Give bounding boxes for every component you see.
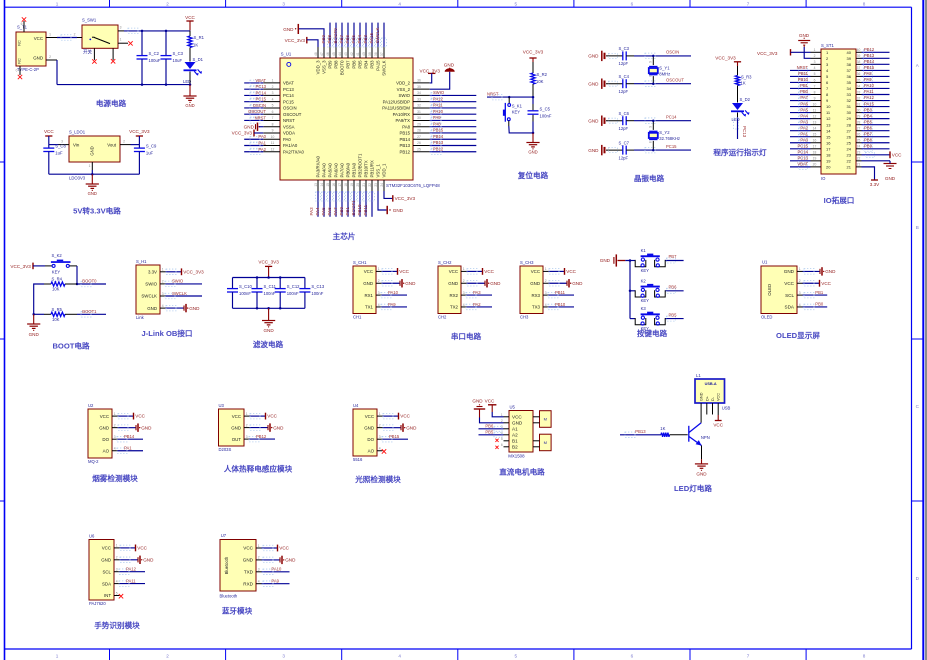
svg-text:RXD: RXD: [243, 581, 253, 586]
wire/net PA0 to MCU pin 10: [244, 138, 263, 140]
svg-text:IO拓展口: IO拓展口: [824, 195, 855, 205]
wire/net VBAT to ST1 pin 20: [790, 166, 811, 168]
svg-text:DO: DO: [102, 437, 109, 442]
svg-text:PB13: PB13: [635, 429, 646, 434]
svg-text:21: 21: [857, 163, 861, 167]
svg-text:19: 19: [813, 157, 817, 161]
svg-text:GND: GND: [588, 148, 599, 153]
MCU right pin stubs: [413, 79, 430, 152]
wire/net NRST to ST1 pin 4: [790, 69, 811, 71]
svg-text:1: 1: [120, 38, 122, 42]
svg-text:31: 31: [847, 104, 852, 109]
wire/net PB13 to ST1 pin 39: [862, 57, 890, 59]
svg-text:PB3: PB3: [363, 34, 368, 43]
svg-text:4: 4: [379, 447, 381, 451]
MCU left pin stubs: [263, 79, 280, 152]
pushbutton K3 KEY: [630, 306, 665, 331]
svg-text:PA10/RX: PA10/RX: [393, 112, 410, 117]
wire/net PA1 to MCU pin 11: [244, 145, 263, 147]
wire R5 left junction: [34, 313, 44, 315]
svg-text:直流电机电路: 直流电机电路: [499, 467, 545, 477]
wire/net PA5 at MCU bottom: [329, 191, 331, 217]
svg-text:30: 30: [847, 110, 852, 115]
svg-text:47: 47: [320, 52, 324, 56]
svg-text:PB5: PB5: [351, 34, 356, 43]
svg-text:12pF: 12pF: [619, 126, 629, 131]
svg-text:PB14: PB14: [433, 134, 444, 139]
power port VCC_3V3 LDO output: [136, 135, 143, 137]
wire/net PA7 to ST1 pin 9: [790, 100, 811, 102]
capacitor S_C8 1uF: [48, 145, 50, 149]
wire/net PA11 to ST1 pin 33: [862, 94, 890, 96]
svg-text:S_C12: S_C12: [287, 284, 300, 289]
svg-text:PA8: PA8: [864, 71, 872, 76]
svg-text:IO: IO: [821, 176, 826, 181]
wire/net OSCIN: [634, 55, 691, 57]
svg-text:36: 36: [857, 72, 861, 76]
svg-text:44: 44: [338, 52, 342, 56]
svg-text:18: 18: [813, 151, 817, 155]
svg-text:3: 3: [272, 91, 274, 95]
wire/net PB5 to U5 A2: [479, 434, 504, 436]
svg-text:35: 35: [857, 78, 861, 82]
wire/net PA9 to MCU pin 30: [430, 119, 477, 121]
svg-text:4: 4: [162, 304, 164, 308]
svg-text:PC15: PC15: [798, 143, 809, 148]
wire/net PB13 to MCU pin 26: [430, 145, 477, 147]
svg-text:B: B: [916, 225, 919, 230]
svg-text:A1: A1: [512, 427, 518, 432]
svg-text:PB1: PB1: [345, 206, 350, 215]
svg-text:3: 3: [814, 60, 816, 64]
svg-text:17: 17: [826, 146, 831, 151]
wire/net PB4 at MCU top: [365, 23, 367, 47]
svg-text:40: 40: [857, 48, 861, 52]
svg-text:VCC: VCC: [512, 415, 522, 420]
svg-text:2: 2: [545, 279, 547, 283]
svg-text:SWCLK: SWCLK: [172, 291, 187, 296]
wire/net PB8 to ST1 pin 25: [862, 142, 890, 144]
svg-text:20: 20: [356, 183, 360, 187]
svg-text:S_R3: S_R3: [741, 75, 752, 80]
svg-text:27: 27: [857, 126, 861, 130]
wire button K2 to BOOT0 node: [76, 266, 78, 284]
svg-text:J-Link OB接口: J-Link OB接口: [141, 328, 192, 338]
svg-text:VCC_3V3: VCC_3V3: [523, 50, 544, 55]
svg-text:16: 16: [332, 183, 336, 187]
svg-text:40: 40: [362, 52, 366, 56]
wire/net PC13 at LED cathode: [737, 117, 739, 139]
svg-text:PA5/A0: PA5/A0: [328, 163, 333, 178]
wire/net PA9 to ST1 pin 35: [862, 81, 890, 83]
svg-text:S_Y2: S_Y2: [659, 130, 670, 135]
svg-text:3.3V: 3.3V: [148, 270, 157, 275]
svg-text:S_R4: S_R4: [52, 277, 63, 282]
power port VCC for LDO input: [45, 135, 52, 137]
ground GND at MCU pin VSS_1: [378, 191, 386, 210]
svg-text:PA9/TX: PA9/TX: [396, 118, 411, 123]
svg-text:39: 39: [847, 56, 852, 61]
driver U5 MX1508: [501, 405, 533, 459]
svg-text:PB15: PB15: [433, 128, 444, 133]
svg-text:18: 18: [826, 152, 831, 157]
svg-text:8: 8: [814, 90, 816, 94]
wire filter bottom rail: [233, 307, 305, 309]
no-connect X on U5 B1: [495, 439, 498, 442]
svg-text:PA12: PA12: [433, 96, 444, 101]
svg-text:3: 3: [114, 435, 116, 439]
svg-text:PB8: PB8: [864, 137, 873, 142]
svg-text:PB9: PB9: [864, 143, 873, 148]
svg-text:PA3: PA3: [473, 290, 481, 295]
svg-text:PA9: PA9: [271, 578, 279, 583]
svg-text:VCC_3V3: VCC_3V3: [10, 264, 31, 269]
svg-text:SCL: SCL: [785, 293, 794, 298]
svg-text:PA7/A0: PA7/A0: [340, 163, 345, 178]
svg-text:PA8: PA8: [402, 124, 410, 129]
svg-text:PB10: PB10: [555, 302, 566, 307]
no-connect X on SW1 pin 1: [128, 41, 132, 45]
svg-text:2: 2: [463, 279, 465, 283]
wire/net PA10 to ST1 pin 34: [862, 87, 890, 89]
svg-text:5: 5: [814, 72, 816, 76]
svg-text:S_CH3: S_CH3: [520, 260, 534, 265]
svg-text:PA0: PA0: [258, 134, 266, 139]
svg-text:M: M: [544, 440, 547, 445]
svg-text:PB14: PB14: [864, 59, 875, 64]
svg-text:PB15: PB15: [389, 434, 400, 439]
svg-text:2: 2: [114, 423, 116, 427]
connector S_ST1 IO header body: [821, 43, 856, 181]
svg-text:25: 25: [417, 147, 421, 151]
svg-text:PB12: PB12: [864, 47, 875, 52]
svg-text:VCC: VCC: [717, 393, 721, 401]
wire/net PB15 to ST1 pin 37: [862, 69, 890, 71]
svg-text:2: 2: [123, 139, 125, 143]
svg-text:31: 31: [857, 102, 861, 106]
svg-text:LED灯电路: LED灯电路: [674, 483, 712, 493]
svg-text:程序运行指示灯: 程序运行指示灯: [713, 147, 767, 157]
wire/net OSCOUT to MCU pin 6: [244, 113, 263, 115]
svg-text:PB2/BOOT1: PB2/BOOT1: [358, 153, 363, 177]
gesture U6 PAJ7620 module: [89, 540, 114, 601]
svg-text:PA5: PA5: [800, 107, 808, 112]
svg-text:VCC_3V3: VCC_3V3: [285, 38, 306, 43]
svg-text:8: 8: [272, 122, 274, 126]
svg-text:1: 1: [814, 48, 816, 52]
svg-text:S_C3: S_C3: [173, 51, 184, 56]
svg-text:GND: GND: [472, 399, 483, 404]
svg-text:PA7: PA7: [333, 207, 338, 216]
svg-text:12: 12: [271, 147, 275, 151]
svg-text:GND: GND: [393, 208, 404, 213]
svg-text:41: 41: [356, 52, 360, 56]
svg-text:18: 18: [344, 183, 348, 187]
svg-text:VCC: VCC: [566, 269, 576, 274]
svg-text:VCC: VCC: [185, 15, 195, 20]
svg-text:VCC: VCC: [713, 423, 723, 428]
svg-text:1uF: 1uF: [146, 151, 154, 156]
svg-text:3.3V: 3.3V: [870, 182, 880, 187]
wire/net BOOT0 at MCU top: [341, 23, 343, 47]
svg-text:PB14: PB14: [399, 137, 410, 142]
wire/net PB5 key: [666, 318, 684, 320]
power port VCC OLED pin 2: [803, 282, 820, 284]
wire/net PC15 to MCU pin 4: [244, 101, 263, 103]
svg-text:2: 2: [166, 654, 169, 659]
svg-text:U5: U5: [510, 405, 516, 410]
svg-text:11: 11: [271, 141, 275, 145]
svg-text:3: 3: [116, 568, 118, 572]
svg-text:1: 1: [378, 267, 380, 271]
svg-text:2: 2: [258, 556, 260, 560]
svg-text:GND: GND: [244, 124, 255, 129]
svg-text:AO: AO: [103, 448, 110, 453]
wire LDO input: [49, 144, 59, 146]
svg-text:NPN: NPN: [701, 435, 710, 440]
svg-text:1: 1: [799, 267, 801, 271]
svg-text:SWIO: SWIO: [433, 90, 445, 95]
svg-text:VDD_3: VDD_3: [316, 60, 321, 74]
svg-text:NRST: NRST: [283, 118, 295, 123]
svg-text:BOOT0: BOOT0: [340, 60, 345, 75]
wire/net PB5 at MCU top: [359, 23, 361, 47]
svg-text:PB6: PB6: [669, 285, 678, 290]
svg-text:INT: INT: [104, 593, 111, 598]
svg-text:SWCLK: SWCLK: [382, 60, 387, 75]
svg-text:6: 6: [814, 78, 816, 82]
svg-text:28: 28: [417, 129, 421, 133]
svg-text:VCC_3V3: VCC_3V3: [183, 269, 204, 274]
svg-text:4: 4: [545, 303, 547, 307]
wire/net PB0 OLED SDA: [803, 306, 828, 308]
svg-text:PB3: PB3: [370, 60, 375, 69]
svg-text:MQ-2: MQ-2: [88, 459, 99, 464]
svg-text:VCC: VCC: [100, 414, 109, 419]
svg-text:VCC: VCC: [34, 36, 43, 41]
svg-text:VCC: VCC: [485, 399, 495, 404]
svg-text:23: 23: [857, 151, 861, 155]
svg-text:Bluetooth: Bluetooth: [220, 594, 238, 599]
wire/net PB9 to ST1 pin 24: [862, 148, 890, 150]
svg-text:PB8: PB8: [334, 60, 339, 69]
svg-text:10: 10: [813, 102, 817, 106]
wire/net PC13 to MCU pin 2: [244, 88, 263, 90]
svg-text:100nF: 100nF: [239, 291, 251, 296]
wire/net PA10 to MCU pin 31: [430, 113, 477, 115]
svg-text:复位电路: 复位电路: [517, 170, 549, 180]
svg-text:GND: GND: [243, 558, 254, 563]
svg-text:VCC: VCC: [279, 546, 289, 551]
wire/net PA2 to MCU pin 12: [244, 151, 263, 153]
svg-text:PB15: PB15: [399, 131, 410, 136]
svg-text:VDD_1: VDD_1: [382, 163, 387, 177]
wire/net PA12 to MCU pin 33: [430, 101, 477, 103]
svg-text:S_SW1: S_SW1: [82, 18, 97, 23]
svg-text:PA2: PA2: [473, 302, 481, 307]
svg-text:2: 2: [814, 54, 816, 58]
svg-text:S_C2: S_C2: [149, 51, 160, 56]
wire/net VBAT to MCU pin 1: [244, 82, 263, 84]
svg-text:GND: GND: [600, 258, 611, 263]
svg-text:12pF: 12pF: [619, 89, 629, 94]
svg-text:5: 5: [116, 591, 118, 595]
svg-text:32: 32: [847, 98, 852, 103]
svg-text:PB11: PB11: [798, 71, 809, 76]
svg-text:PB12: PB12: [433, 146, 444, 151]
svg-text:GND: GND: [530, 281, 540, 286]
svg-text:OSCOUT: OSCOUT: [666, 78, 684, 83]
wire/net PB6 at MCU top: [353, 23, 355, 47]
svg-text:19: 19: [826, 158, 831, 163]
svg-text:PB0: PB0: [339, 206, 344, 215]
svg-text:PC14: PC14: [666, 115, 677, 120]
net NRST wire: [487, 96, 533, 98]
wire LDO ground rail: [49, 173, 140, 175]
svg-text:PC13: PC13: [256, 84, 267, 89]
ST1 left pin stubs: [811, 48, 822, 167]
svg-text:9: 9: [272, 129, 274, 133]
wire/net PB5 to ST1 pin 28: [862, 124, 890, 126]
svg-text:GND: GND: [29, 332, 40, 337]
capacitor S_C2 100uF: [141, 31, 143, 56]
wire/net PB11 at MCU bottom: [371, 191, 373, 217]
svg-text:PB10: PB10: [357, 204, 362, 216]
svg-text:OSCIN: OSCIN: [253, 103, 266, 108]
svg-text:6: 6: [21, 22, 23, 26]
svg-text:100uF: 100uF: [149, 58, 161, 63]
wire key ground rail: [625, 261, 630, 319]
svg-text:蓝牙模块: 蓝牙模块: [222, 606, 253, 616]
svg-text:26: 26: [857, 133, 861, 137]
svg-text:GND: GND: [572, 281, 583, 286]
svg-text:39: 39: [857, 54, 861, 58]
svg-text:7: 7: [747, 1, 750, 6]
svg-text:Link: Link: [136, 315, 145, 320]
no-connect X on U5 B2: [495, 446, 498, 449]
svg-text:PC13: PC13: [283, 87, 294, 92]
svg-text:1: 1: [162, 268, 164, 272]
svg-text:8: 8: [649, 141, 653, 143]
ground GND of LDO: [91, 174, 93, 184]
svg-text:OSCOUT: OSCOUT: [248, 109, 266, 114]
svg-text:PA0: PA0: [800, 137, 808, 142]
svg-text:PB9: PB9: [321, 34, 326, 43]
svg-text:23: 23: [374, 183, 378, 187]
svg-text:KEY: KEY: [52, 270, 61, 275]
ground GND reset: [532, 133, 534, 143]
svg-text:KEY: KEY: [512, 110, 521, 115]
svg-text:25: 25: [847, 140, 852, 145]
svg-text:PA6: PA6: [327, 207, 332, 216]
svg-text:24: 24: [847, 146, 852, 151]
svg-text:31: 31: [417, 110, 421, 114]
op-amp U1 main MCU STM32F103C6T6 body: [280, 52, 440, 189]
svg-text:USB: USB: [722, 406, 731, 411]
svg-text:22: 22: [368, 183, 372, 187]
svg-text:1: 1: [463, 267, 465, 271]
svg-text:15: 15: [813, 133, 817, 137]
svg-text:A2: A2: [512, 433, 518, 438]
svg-text:PA3: PA3: [800, 119, 808, 124]
svg-text:PA9: PA9: [433, 115, 441, 120]
svg-text:AO: AO: [368, 448, 375, 453]
svg-text:39: 39: [368, 52, 372, 56]
svg-text:1: 1: [258, 544, 260, 548]
svg-text:SWCLK: SWCLK: [375, 27, 380, 43]
svg-text:NC: NC: [18, 58, 22, 64]
svg-text:32: 32: [417, 104, 421, 108]
svg-text:S_R5: S_R5: [52, 307, 63, 312]
svg-text:VCC: VCC: [484, 269, 494, 274]
svg-text:5516: 5516: [353, 457, 363, 462]
svg-text:U3: U3: [219, 403, 225, 408]
svg-text:4: 4: [463, 303, 465, 307]
svg-text:SWCLK: SWCLK: [141, 294, 157, 299]
svg-text:VCC_3V3: VCC_3V3: [258, 260, 279, 265]
svg-text:17: 17: [338, 183, 342, 187]
svg-text:23: 23: [847, 152, 852, 157]
svg-text:38: 38: [847, 62, 852, 67]
connector S_H1 J-Link: [136, 265, 160, 314]
svg-text:8: 8: [863, 1, 866, 6]
wire/net PB9 at MCU top: [329, 23, 331, 47]
connector L1 USB-A: [695, 373, 725, 422]
svg-text:PA11: PA11: [433, 103, 443, 108]
svg-text:S_C8: S_C8: [55, 144, 66, 149]
ground GND at MCU pin 8 VSSA: [257, 123, 259, 131]
svg-text:S_R2: S_R2: [537, 72, 548, 77]
svg-text:L1: L1: [696, 373, 701, 378]
svg-text:BOOT1: BOOT1: [351, 200, 356, 216]
svg-text:BOOT0: BOOT0: [82, 279, 97, 284]
svg-text:VCC: VCC: [449, 269, 458, 274]
svg-text:人体热释电感应模块: 人体热释电感应模块: [223, 464, 293, 474]
svg-text:GND: GND: [588, 54, 599, 59]
wire/net PB4 to ST1 pin 29: [862, 118, 890, 120]
svg-text:PA3/RX/A0: PA3/RX/A0: [316, 155, 321, 177]
svg-text:S_C3: S_C3: [619, 46, 630, 51]
svg-text:15: 15: [826, 134, 831, 139]
window edge strip: [925, 0, 927, 660]
svg-text:PB14: PB14: [124, 434, 135, 439]
wire T1 VCC to SW1: [57, 37, 77, 39]
svg-text:VCC: VCC: [102, 546, 111, 551]
wire/net PB6 to ST1 pin 27: [862, 130, 890, 132]
svg-text:PA8: PA8: [433, 121, 441, 126]
svg-text:0: 0: [16, 69, 18, 73]
svg-text:GND: GND: [696, 472, 707, 477]
svg-text:TX2: TX2: [450, 305, 459, 310]
svg-text:U2: U2: [88, 403, 94, 408]
wire GND to U5 pin 2: [480, 418, 504, 423]
svg-text:PA7: PA7: [800, 95, 808, 100]
wire/net PC15: [634, 149, 691, 151]
svg-text:GND: GND: [512, 421, 523, 426]
svg-text:2: 2: [166, 1, 169, 6]
wire/net PA1 to ST1 pin 15: [790, 136, 811, 138]
svg-text:40: 40: [847, 50, 852, 55]
svg-text:S_C13: S_C13: [311, 284, 324, 289]
wire/net PC14: [634, 120, 691, 122]
wire/net PB6 to U5 A1: [479, 428, 504, 430]
svg-text:1K: 1K: [660, 426, 665, 431]
svg-text:PC13: PC13: [798, 156, 809, 161]
svg-text:4: 4: [799, 303, 801, 307]
svg-text:S_CH2: S_CH2: [438, 260, 452, 265]
bluetooth U7 module: [220, 533, 262, 599]
svg-text:100nF: 100nF: [311, 291, 323, 296]
